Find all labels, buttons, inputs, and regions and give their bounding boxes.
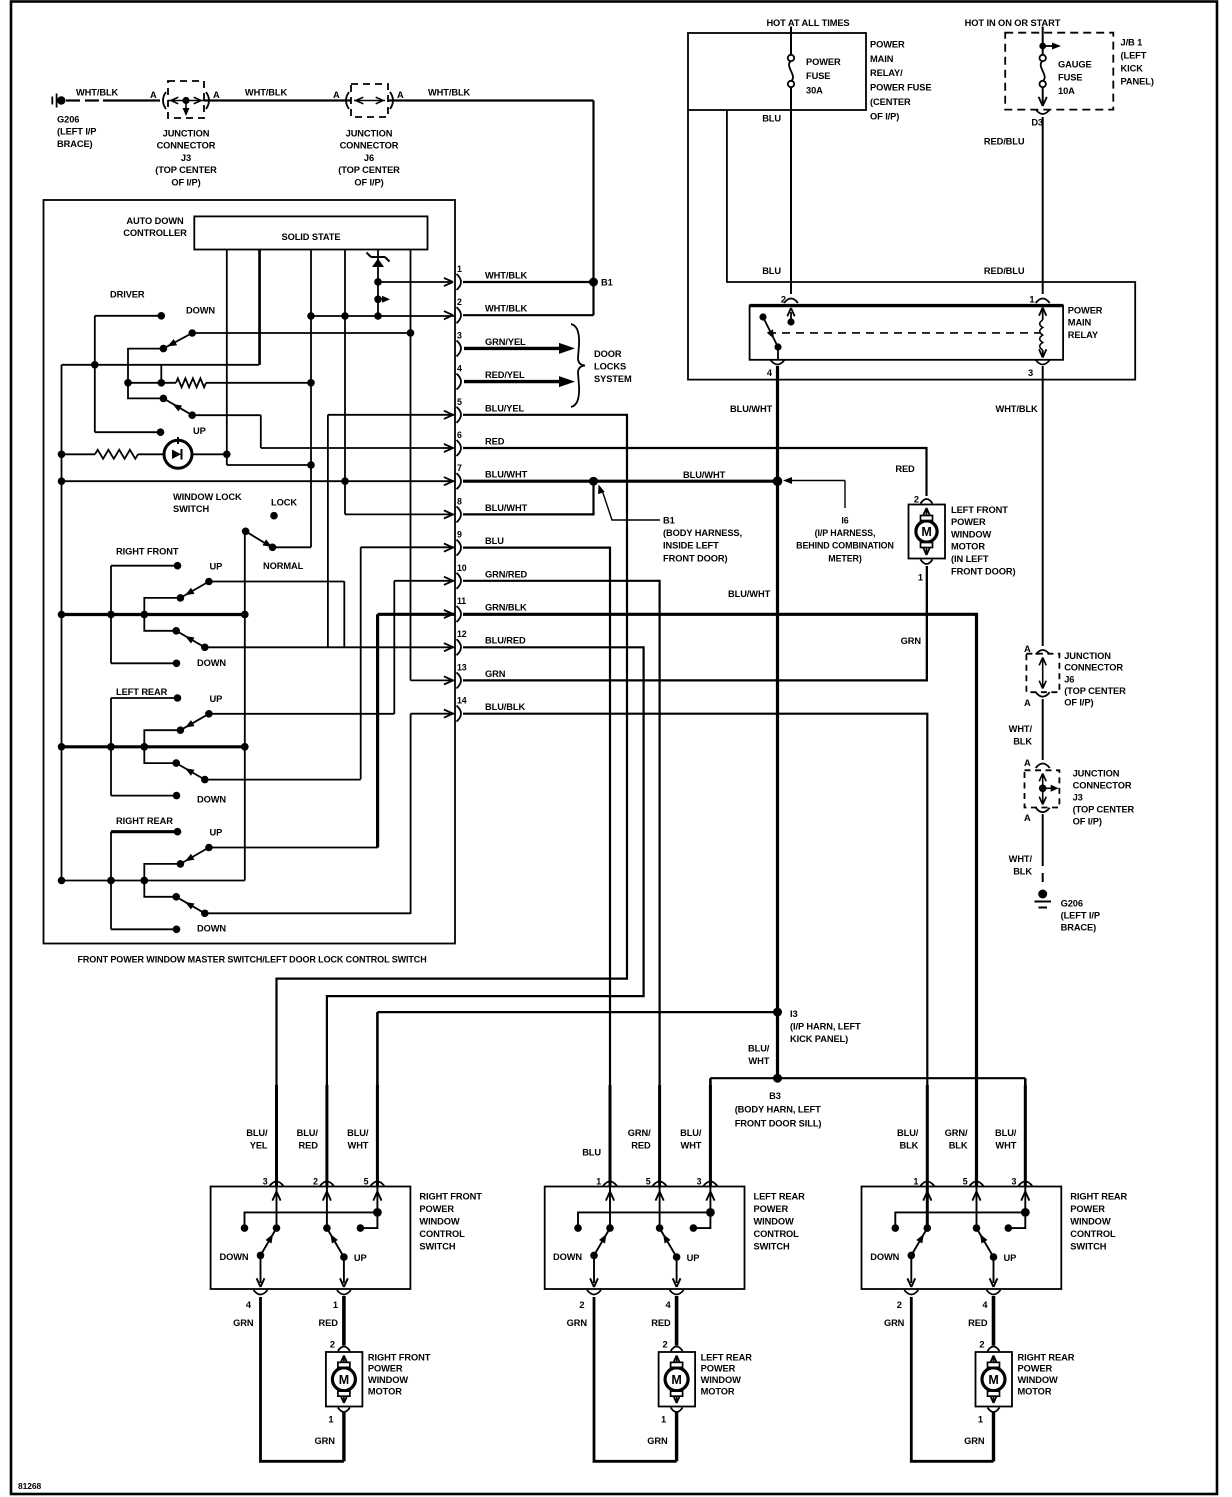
svg-text:GRN/RED: GRN/RED: [485, 569, 528, 579]
svg-text:13: 13: [457, 662, 467, 672]
svg-text:G206: G206: [1061, 898, 1083, 908]
svg-text:1: 1: [661, 1415, 666, 1425]
svg-text:GRN/YEL: GRN/YEL: [485, 337, 526, 347]
svg-text:BLU/WHT: BLU/WHT: [683, 470, 726, 480]
svg-text:RED/BLU: RED/BLU: [984, 137, 1025, 147]
svg-text:BLU/BLK: BLU/BLK: [485, 702, 525, 712]
svg-text:7: 7: [457, 463, 462, 473]
svg-text:DOWN: DOWN: [197, 795, 226, 805]
svg-text:(LEFT: (LEFT: [1121, 51, 1147, 61]
svg-text:10A: 10A: [1058, 86, 1075, 96]
svg-text:BLU: BLU: [762, 266, 781, 276]
svg-text:MAIN: MAIN: [1068, 318, 1092, 328]
svg-text:M: M: [988, 1373, 998, 1387]
svg-text:LEFT REAR: LEFT REAR: [701, 1352, 753, 1362]
svg-text:FRONT DOOR): FRONT DOOR): [663, 553, 728, 563]
svg-text:J/B 1: J/B 1: [1121, 38, 1143, 48]
svg-text:DRIVER: DRIVER: [110, 290, 145, 300]
svg-text:2: 2: [979, 1340, 984, 1350]
svg-text:POWER: POWER: [1070, 1204, 1105, 1214]
svg-text:RED: RED: [299, 1141, 319, 1151]
svg-text:(TOP CENTER: (TOP CENTER: [1064, 686, 1126, 696]
svg-text:MOTOR: MOTOR: [1018, 1387, 1052, 1397]
svg-text:(CENTER: (CENTER: [870, 97, 911, 107]
svg-text:(TOP CENTER: (TOP CENTER: [155, 165, 217, 175]
svg-text:RED: RED: [485, 437, 505, 447]
svg-text:KICK: KICK: [1121, 64, 1144, 74]
svg-text:BLU/: BLU/: [347, 1128, 369, 1138]
svg-text:BLU/: BLU/: [748, 1044, 770, 1054]
svg-text:FUSE: FUSE: [806, 71, 830, 81]
svg-text:1: 1: [918, 573, 923, 583]
svg-text:10: 10: [457, 563, 467, 573]
svg-text:DOWN: DOWN: [553, 1252, 582, 1262]
svg-text:DOWN: DOWN: [197, 658, 226, 668]
svg-text:DOWN: DOWN: [219, 1252, 248, 1262]
svg-text:UP: UP: [210, 562, 223, 572]
svg-text:RED/YEL: RED/YEL: [485, 370, 525, 380]
svg-text:WINDOW LOCK: WINDOW LOCK: [173, 492, 242, 502]
svg-text:MOTOR: MOTOR: [368, 1387, 402, 1397]
svg-text:D3: D3: [1031, 118, 1043, 128]
svg-text:2: 2: [897, 1300, 902, 1310]
svg-text:M: M: [921, 525, 931, 539]
svg-text:GRN: GRN: [647, 1436, 668, 1446]
svg-text:1: 1: [978, 1415, 983, 1425]
svg-text:WHT/: WHT/: [1009, 854, 1033, 864]
svg-text:BRACE): BRACE): [1061, 922, 1097, 932]
svg-text:FRONT DOOR SILL): FRONT DOOR SILL): [735, 1119, 822, 1129]
svg-text:J6: J6: [364, 153, 374, 163]
svg-text:RED: RED: [319, 1318, 339, 1328]
svg-text:30A: 30A: [806, 85, 823, 95]
svg-text:B1: B1: [663, 516, 675, 526]
svg-text:5: 5: [364, 1177, 369, 1187]
svg-text:OF I/P): OF I/P): [1064, 698, 1093, 708]
svg-text:(BODY HARN, LEFT: (BODY HARN, LEFT: [735, 1105, 821, 1115]
svg-text:GRN: GRN: [901, 636, 922, 646]
svg-text:(BODY HARNESS,: (BODY HARNESS,: [663, 528, 742, 538]
svg-text:CONNECTOR: CONNECTOR: [1064, 663, 1123, 673]
svg-text:LOCK: LOCK: [271, 498, 297, 508]
svg-text:WINDOW: WINDOW: [754, 1217, 795, 1227]
svg-text:GRN/: GRN/: [945, 1128, 968, 1138]
svg-text:BLU/: BLU/: [246, 1128, 268, 1138]
svg-text:DOOR: DOOR: [594, 349, 622, 359]
svg-text:A: A: [397, 90, 404, 100]
svg-text:BLU: BLU: [485, 536, 504, 546]
svg-text:5: 5: [646, 1177, 651, 1187]
svg-text:RED: RED: [968, 1318, 988, 1328]
svg-text:SWITCH: SWITCH: [754, 1241, 790, 1251]
svg-text:3: 3: [457, 330, 462, 340]
svg-text:CONNECTOR: CONNECTOR: [157, 141, 216, 151]
svg-text:3: 3: [263, 1177, 268, 1187]
svg-text:DOWN: DOWN: [870, 1252, 899, 1262]
svg-text:GRN: GRN: [485, 669, 506, 679]
svg-text:OF I/P): OF I/P): [171, 177, 200, 187]
svg-text:POWER FUSE: POWER FUSE: [870, 83, 932, 93]
svg-text:UP: UP: [193, 426, 206, 436]
svg-text:(I/P HARN, LEFT: (I/P HARN, LEFT: [790, 1022, 861, 1032]
svg-text:RIGHT REAR: RIGHT REAR: [116, 816, 173, 826]
svg-text:M: M: [671, 1373, 681, 1387]
svg-text:6: 6: [457, 430, 462, 440]
svg-text:RIGHT FRONT: RIGHT FRONT: [368, 1352, 431, 1362]
svg-text:BLK: BLK: [1013, 737, 1032, 747]
svg-text:INSIDE LEFT: INSIDE LEFT: [663, 541, 719, 551]
svg-text:BLU/WHT: BLU/WHT: [728, 589, 771, 599]
svg-text:POWER: POWER: [870, 39, 905, 49]
svg-text:GRN: GRN: [315, 1436, 336, 1446]
svg-text:RED/BLU: RED/BLU: [984, 266, 1025, 276]
svg-text:MAIN: MAIN: [870, 54, 894, 64]
svg-text:BLK: BLK: [1013, 867, 1032, 877]
svg-text:BLU: BLU: [762, 114, 781, 124]
svg-text:RELAY: RELAY: [1068, 330, 1099, 340]
svg-text:WHT/BLK: WHT/BLK: [485, 304, 528, 314]
svg-text:WINDOW: WINDOW: [701, 1375, 742, 1385]
svg-text:1: 1: [1029, 295, 1034, 305]
svg-text:A: A: [1024, 644, 1031, 654]
svg-text:METER): METER): [828, 553, 862, 563]
svg-text:I6: I6: [841, 516, 848, 526]
svg-text:A: A: [150, 90, 157, 100]
svg-text:3: 3: [1012, 1177, 1017, 1187]
svg-text:2: 2: [579, 1300, 584, 1310]
svg-text:BLU/: BLU/: [680, 1128, 702, 1138]
svg-text:POWER: POWER: [754, 1204, 789, 1214]
svg-text:WHT: WHT: [995, 1141, 1016, 1151]
svg-text:81268: 81268: [18, 1481, 42, 1491]
svg-text:CONTROL: CONTROL: [419, 1229, 465, 1239]
svg-text:CONTROLLER: CONTROLLER: [123, 228, 187, 238]
svg-text:WHT/: WHT/: [1009, 724, 1033, 734]
svg-text:RED: RED: [631, 1141, 651, 1151]
svg-text:LOCKS: LOCKS: [594, 361, 626, 371]
svg-text:FRONT POWER WINDOW MASTER SWIT: FRONT POWER WINDOW MASTER SWITCH/LEFT DO…: [78, 955, 427, 965]
svg-text:FUSE: FUSE: [1058, 73, 1082, 83]
svg-text:GRN: GRN: [964, 1436, 985, 1446]
svg-text:SWITCH: SWITCH: [173, 504, 209, 514]
svg-text:SWITCH: SWITCH: [1070, 1241, 1106, 1251]
svg-text:CONNECTOR: CONNECTOR: [340, 141, 399, 151]
svg-text:11: 11: [457, 596, 466, 606]
svg-text:HOT IN ON OR START: HOT IN ON OR START: [965, 18, 1061, 28]
svg-text:2: 2: [663, 1340, 668, 1350]
svg-text:WHT/BLK: WHT/BLK: [428, 88, 471, 98]
svg-text:CONTROL: CONTROL: [1070, 1229, 1116, 1239]
svg-text:RIGHT REAR: RIGHT REAR: [1070, 1192, 1127, 1202]
svg-text:DOWN: DOWN: [186, 306, 215, 316]
svg-text:1: 1: [328, 1415, 333, 1425]
svg-text:BLU/: BLU/: [995, 1128, 1017, 1138]
svg-text:WINDOW: WINDOW: [1070, 1217, 1111, 1227]
svg-text:CONTROL: CONTROL: [754, 1229, 800, 1239]
svg-text:POWER: POWER: [1068, 306, 1103, 316]
svg-text:1: 1: [596, 1177, 601, 1187]
svg-text:LEFT REAR: LEFT REAR: [116, 687, 168, 697]
svg-text:(LEFT I/P: (LEFT I/P: [57, 127, 96, 137]
svg-text:POWER: POWER: [368, 1364, 403, 1374]
svg-text:WHT/BLK: WHT/BLK: [245, 88, 288, 98]
svg-text:MOTOR: MOTOR: [951, 542, 985, 552]
svg-text:WHT/BLK: WHT/BLK: [485, 271, 528, 281]
svg-text:1: 1: [333, 1300, 338, 1310]
svg-text:SOLID STATE: SOLID STATE: [282, 232, 341, 242]
svg-text:5: 5: [963, 1177, 968, 1187]
svg-text:5: 5: [457, 397, 462, 407]
svg-text:WINDOW: WINDOW: [1018, 1375, 1059, 1385]
svg-text:I3: I3: [790, 1009, 798, 1019]
svg-text:WHT: WHT: [748, 1056, 769, 1066]
svg-text:WHT/BLK: WHT/BLK: [996, 404, 1039, 414]
svg-text:DOWN: DOWN: [197, 924, 226, 934]
svg-text:YEL: YEL: [250, 1141, 268, 1151]
svg-text:UP: UP: [1004, 1253, 1017, 1263]
svg-text:(TOP CENTER: (TOP CENTER: [338, 165, 400, 175]
svg-text:OF I/P): OF I/P): [1073, 816, 1102, 826]
svg-text:2: 2: [781, 295, 786, 305]
svg-text:SWITCH: SWITCH: [419, 1241, 455, 1251]
svg-text:UP: UP: [210, 828, 223, 838]
svg-text:(LEFT I/P: (LEFT I/P: [1061, 910, 1100, 920]
svg-text:BLU/WHT: BLU/WHT: [730, 404, 773, 414]
svg-text:8: 8: [457, 496, 462, 506]
svg-text:2: 2: [313, 1177, 318, 1187]
svg-text:POWER: POWER: [1018, 1364, 1053, 1374]
svg-text:RIGHT REAR: RIGHT REAR: [1018, 1352, 1075, 1362]
svg-text:WINDOW: WINDOW: [951, 529, 992, 539]
svg-text:BEHIND COMBINATION: BEHIND COMBINATION: [796, 541, 894, 551]
svg-text:1: 1: [457, 264, 462, 274]
svg-text:KICK PANEL): KICK PANEL): [790, 1034, 848, 1044]
svg-text:A: A: [333, 90, 340, 100]
svg-text:M: M: [339, 1373, 349, 1387]
svg-text:FRONT DOOR): FRONT DOOR): [951, 566, 1016, 576]
svg-text:WINDOW: WINDOW: [419, 1217, 460, 1227]
svg-text:UP: UP: [687, 1253, 700, 1263]
svg-text:2: 2: [914, 495, 919, 505]
svg-text:BRACE): BRACE): [57, 139, 93, 149]
svg-text:3: 3: [1028, 368, 1033, 378]
svg-text:RIGHT FRONT: RIGHT FRONT: [419, 1192, 482, 1202]
svg-text:WHT: WHT: [681, 1141, 702, 1151]
svg-text:BLU/WHT: BLU/WHT: [485, 503, 528, 513]
svg-text:JUNCTION: JUNCTION: [163, 129, 210, 139]
svg-text:PANEL): PANEL): [1121, 77, 1154, 87]
svg-text:UP: UP: [354, 1253, 367, 1263]
svg-text:(IN LEFT: (IN LEFT: [951, 554, 989, 564]
svg-text:BLK: BLK: [899, 1141, 918, 1151]
svg-text:RIGHT FRONT: RIGHT FRONT: [116, 547, 179, 557]
svg-text:BLU/: BLU/: [297, 1128, 319, 1138]
svg-text:RED: RED: [651, 1318, 671, 1328]
svg-text:HOT AT ALL TIMES: HOT AT ALL TIMES: [766, 18, 849, 28]
svg-text:NORMAL: NORMAL: [263, 561, 304, 571]
svg-text:POWER: POWER: [951, 517, 986, 527]
svg-text:A: A: [213, 90, 220, 100]
svg-text:GRN: GRN: [884, 1318, 905, 1328]
svg-text:POWER: POWER: [701, 1364, 736, 1374]
svg-text:SYSTEM: SYSTEM: [594, 374, 632, 384]
svg-text:9: 9: [457, 530, 462, 540]
svg-text:J6: J6: [1064, 674, 1074, 684]
svg-text:POWER: POWER: [806, 57, 841, 67]
svg-text:JUNCTION: JUNCTION: [1073, 769, 1120, 779]
svg-text:RED: RED: [895, 464, 915, 474]
svg-text:BLU/YEL: BLU/YEL: [485, 403, 524, 413]
svg-text:LEFT FRONT: LEFT FRONT: [951, 505, 1008, 515]
svg-text:(I/P HARNESS,: (I/P HARNESS,: [815, 528, 876, 538]
svg-text:POWER: POWER: [419, 1204, 454, 1214]
svg-text:12: 12: [457, 629, 467, 639]
svg-text:BLK: BLK: [949, 1141, 968, 1151]
svg-text:14: 14: [457, 696, 467, 706]
svg-text:2: 2: [457, 297, 462, 307]
svg-text:WINDOW: WINDOW: [368, 1375, 409, 1385]
svg-text:BLU: BLU: [582, 1148, 601, 1158]
svg-text:BLU/RED: BLU/RED: [485, 636, 526, 646]
svg-text:3: 3: [697, 1177, 702, 1187]
svg-text:A: A: [1024, 813, 1031, 823]
svg-text:GAUGE: GAUGE: [1058, 60, 1092, 70]
svg-text:4: 4: [457, 364, 462, 374]
svg-text:RELAY/: RELAY/: [870, 68, 903, 78]
svg-text:MOTOR: MOTOR: [701, 1387, 735, 1397]
svg-text:A: A: [1024, 698, 1031, 708]
svg-text:WHT: WHT: [348, 1141, 369, 1151]
svg-text:BLU/: BLU/: [897, 1128, 919, 1138]
svg-text:GRN/BLK: GRN/BLK: [485, 603, 527, 613]
svg-text:GRN: GRN: [233, 1318, 254, 1328]
svg-text:JUNCTION: JUNCTION: [1064, 651, 1111, 661]
svg-text:B3: B3: [769, 1091, 781, 1101]
svg-text:(TOP CENTER: (TOP CENTER: [1073, 804, 1135, 814]
svg-text:J3: J3: [181, 153, 191, 163]
svg-text:OF I/P): OF I/P): [354, 177, 383, 187]
svg-text:2: 2: [330, 1340, 335, 1350]
svg-text:JUNCTION: JUNCTION: [346, 129, 393, 139]
svg-text:UP: UP: [210, 694, 223, 704]
svg-text:LEFT REAR: LEFT REAR: [754, 1192, 806, 1202]
svg-text:B1: B1: [601, 278, 613, 288]
svg-text:G206: G206: [57, 115, 79, 125]
svg-text:A: A: [1024, 758, 1031, 768]
svg-text:WHT/BLK: WHT/BLK: [76, 88, 119, 98]
svg-text:OF I/P): OF I/P): [870, 111, 899, 121]
svg-text:AUTO DOWN: AUTO DOWN: [126, 216, 184, 226]
svg-text:BLU/WHT: BLU/WHT: [485, 470, 528, 480]
svg-text:GRN/: GRN/: [628, 1128, 651, 1138]
svg-text:CONNECTOR: CONNECTOR: [1073, 781, 1132, 791]
svg-text:1: 1: [914, 1177, 919, 1187]
svg-text:GRN: GRN: [567, 1318, 588, 1328]
svg-text:J3: J3: [1073, 793, 1083, 803]
